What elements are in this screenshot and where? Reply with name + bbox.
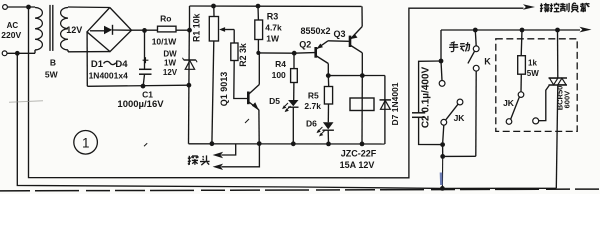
svg-text:B: B [50,57,56,67]
node dot relay bottom ground [360,142,365,147]
svg-text:D5: D5 [269,96,280,106]
arrow to controlled load (top) [523,4,535,10]
triac BCR50 [549,30,568,188]
svg-text:JK: JK [454,113,466,123]
label AC 220V [1,21,21,40]
wire ground down-link [188,85,190,144]
label JK gate contact [503,98,515,108]
node dot Q1 emitter ground [257,141,262,146]
svg-text:100: 100 [272,70,286,80]
label 8550x2 [300,26,330,36]
node dot R1 ground [210,141,215,146]
node dot C1 bottom on ground rail [141,84,146,89]
wire bridge DC+ to Ro [132,29,158,31]
node dot Q2 collector / R5 [326,73,331,78]
svg-text:Q3: Q3 [333,29,345,39]
label C2 0.1u/400V (rotated) [421,66,432,128]
probe tap wire B [213,144,260,170]
svg-text:JZC-22F: JZC-22F [341,149,377,159]
svg-text:D7 1N4001: D7 1N4001 [390,82,400,125]
node dot +12V junction right of Ro [187,28,192,33]
svg-text:C2 0.1µ/400V: C2 0.1µ/400V [421,66,432,128]
svg-text:4.7k: 4.7k [265,23,282,33]
node dot bottom line junction [440,186,445,191]
svg-text:1000µ/16V: 1000µ/16V [117,99,164,110]
label probe 探头 [188,155,210,165]
label R4 100 [272,59,287,80]
label D6 [306,118,317,128]
label K [484,57,491,67]
svg-text:R2 3k: R2 3k [238,43,248,67]
svg-text:R5: R5 [308,91,319,101]
wire secondary top to bridge [68,6,110,9]
svg-text:AC: AC [7,21,19,30]
node dot C1 top junction [142,28,147,33]
svg-text:R3: R3 [267,12,279,22]
svg-text:5W: 5W [45,69,59,79]
wire AC-L loop: left vertical, bottom run, right vertical to load arrow [29,7,524,178]
dashed enclosure box (solid state switch) [496,39,577,132]
svg-text:1W: 1W [266,34,280,44]
svg-text:12V: 12V [163,68,178,77]
ground rail main section [189,143,385,145]
node dot zener bottom [187,83,192,88]
capacitor C2 branch [412,61,443,145]
resistor R4 [291,53,298,100]
node dot probe A tee [0,0,1,1]
label 1N4001x4 [89,70,129,80]
wire +12V node up to top rail [189,6,191,30]
resistor Ro box [158,26,177,32]
svg-text:600V: 600V [563,91,572,109]
wire R2 to Q1 base [234,61,248,99]
svg-text:1k: 1k [528,58,537,67]
transistor Q3 8550 [350,6,362,75]
resistor R2 box [231,43,238,61]
node dot R1 top [211,4,216,9]
label R3 4.7k 1W [265,12,282,44]
wire AC top to transformer primary [7,6,35,8]
label D5 [269,96,280,106]
label B 5W transformer [45,57,59,79]
node junction dot top terminal branch [26,5,31,10]
label R5 2.7k [304,91,321,111]
terminal AC-L top input circle [3,5,8,10]
node dot 1k branch [520,28,525,33]
svg-text:220V: 220V [1,30,21,40]
bridge inner diode symbol [90,25,131,35]
label D1~D4 [91,59,128,70]
zener diode DW [183,30,198,85]
label 手动 manual [449,42,470,52]
svg-text:D6: D6 [306,118,317,128]
stray blue pen mark [440,173,443,186]
label 15A 12V [340,160,375,170]
wire secondary bottom to bridge [68,51,110,53]
label 接控制负载 [540,3,590,13]
wire bridge DC- down to ground rail [86,32,88,86]
capacitor C1 electrolytic [139,30,152,86]
label JK [454,113,466,123]
svg-text:R4: R4 [275,59,286,69]
resistor 1k 5W [518,30,526,92]
LED D6 [317,122,334,144]
transistor Q2 8550 [316,41,329,76]
node dot C2 tap [439,59,444,64]
probe tap wire A [213,144,236,158]
transformer B secondary winding [61,7,68,52]
wire gate contact to triac gate [539,85,550,120]
label 10/1W [152,37,178,47]
stray pencil mark [9,101,43,103]
node dot K branch [473,28,478,33]
label 1000u/16V [117,99,164,110]
label 600V (rotated) [563,91,572,109]
svg-text:1: 1 [82,136,90,151]
wire junction chain down [442,145,444,157]
stray scan tick 1 [144,143,147,146]
label R1 10k (rotated) [191,14,201,42]
node dot D6 ground [326,142,331,147]
label R2 3k (rotated) [238,43,248,67]
node dot Q3 collector / relay [360,73,365,78]
svg-text:Ro: Ro [160,13,171,23]
svg-text:D1: D1 [91,59,104,70]
relay contact JK (main) [439,61,463,142]
transistor Q1 9013 [248,53,259,144]
svg-text:DW: DW [163,50,177,59]
manual switch K branch [443,30,479,156]
relay contact JK (gate) [506,92,539,125]
svg-text:K: K [484,57,491,67]
LED D5 [282,100,298,144]
node dot triac branch [555,28,560,33]
wire R3 bottom to Q2 base node [258,52,294,54]
node junction dot bottom terminal branch [15,51,20,56]
label BCR50 (rotated) [555,86,564,111]
diode D7 1N4001 flyback [380,76,392,145]
node dot K bottom junction [440,154,445,159]
bridge rectifier D1-D4 diamond [87,8,132,52]
label Q3 [333,29,345,39]
wire junction to bottom line [441,156,443,188]
top +12V rail [190,5,362,7]
figure number circle 1 [74,131,98,155]
svg-text:8550x2: 8550x2 [300,26,330,36]
resistor R5 [324,76,332,123]
potentiometer R1 box [209,6,218,41]
wire collector line [328,75,385,77]
svg-text:JK: JK [503,98,515,108]
transformer B primary winding [35,7,42,53]
svg-text:12V: 12V [66,25,82,35]
wire node to Q2 base [294,52,315,55]
svg-text:R1 10k: R1 10k [191,14,201,42]
wire Ro right to +12V node [176,29,190,31]
wire Q2 emitter to Q3 base [328,40,349,43]
wire AC-N bottom line to triac [17,53,556,188]
node dot Q2 base / R4 top [292,51,297,56]
line B rail with right arrow [441,27,592,33]
label 12V secondary [66,25,82,35]
svg-text:C1: C1 [142,89,153,99]
svg-text:15A 12V: 15A 12V [340,160,375,170]
label JZC-22F [341,149,377,159]
svg-text:2.7k: 2.7k [304,101,321,111]
svg-text:1W: 1W [164,59,176,68]
node dot D5 ground [291,141,296,146]
ground rail left section [87,85,189,86]
potentiometer R1 wiper arrow [219,27,234,43]
transformer core [50,5,53,51]
wire R1 bottom to ground [212,41,214,144]
resistor R3 [255,6,263,55]
label D7 1N4001 (rotated) [390,82,400,125]
svg-text:Q2: Q2 [299,39,311,49]
svg-text:Q1 9013: Q1 9013 [219,72,229,107]
svg-text:10/1W: 10/1W [152,37,178,47]
stray scan tick 2 [245,119,249,123]
bottom dashed border of figure [0,189,599,191]
label C1 [142,89,153,99]
svg-text:1N4001x4: 1N4001x4 [89,70,129,80]
wire line B left end down [440,30,442,61]
label Ro [160,13,171,23]
relay coil JZC-22F [350,76,374,144]
label DW 1W 12V [163,50,178,78]
svg-text:D4: D4 [115,59,128,70]
terminal AC-N bottom input circle [2,51,7,56]
label Q2 [299,39,311,49]
svg-text:5W: 5W [527,69,539,78]
label 1k 5W [527,58,539,78]
wire AC bottom to transformer primary [7,52,35,54]
node dot C2/JK bottom junction [440,142,445,147]
label Q1 9013 (rotated) [219,72,229,107]
node dot R3 top [256,4,261,9]
